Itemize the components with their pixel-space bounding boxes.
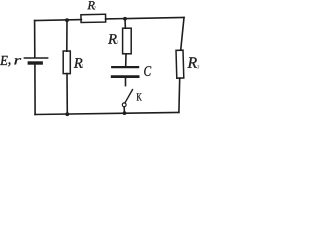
label R1 (left) [74,58,83,67]
label R1 (middle) subscript 1 [116,40,117,44]
label R3 subscript 3 [197,65,199,69]
resistor R3 [176,50,184,78]
wire R1 left branch upper [66,20,68,51]
switch K blade [125,90,132,103]
wire middle branch top stub [124,19,126,28]
wire top-left segment [35,19,82,22]
wire resistor to capacitor [125,54,127,66]
wire capacitor to switch [125,78,127,86]
resistor R2 [81,14,106,22]
wire left branch upper [34,21,36,58]
wire left branch lower [34,65,36,115]
switch K pivot circle [122,103,126,107]
label R1 (left) subscript 1 [82,64,83,68]
label C [144,66,151,76]
node junction top left (dot) [65,18,69,22]
wire switch to bottom [123,107,125,112]
node junction top middle (dot) [123,17,127,21]
node junction bottom left (dot) [65,112,69,116]
resistor R1 (middle) [123,28,132,54]
label R2 subscript 2 [93,6,95,10]
label R3 [187,57,197,67]
battery E,r short thick plate [29,61,41,64]
label R2 [87,1,94,9]
wire R1 left branch lower [66,74,68,115]
label K [137,93,142,100]
capacitor C bottom plate [112,75,138,78]
wire top-right segment [106,18,184,19]
resistor R1 (left) [63,51,70,74]
wire bottom [35,112,179,114]
label E, r [0,56,21,67]
node junction bottom middle (dot) [123,111,127,115]
wire right branch upper [181,18,184,51]
battery E,r long plate [24,57,47,59]
wire right branch lower [178,78,181,112]
capacitor C top plate [112,66,138,68]
label R1 (middle) [108,34,117,44]
